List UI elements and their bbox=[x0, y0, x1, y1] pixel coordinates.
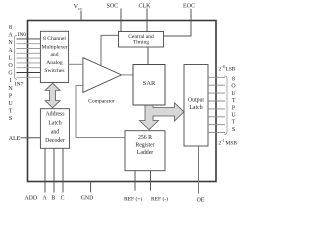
output wire 2 bbox=[208, 84, 225, 86]
svg-text:P: P bbox=[232, 105, 235, 111]
double-headed gray arrow mux<->address latch bbox=[45, 83, 60, 108]
Vcc pin wire bbox=[80, 11, 82, 21]
block: Central and Timing bbox=[119, 32, 164, 48]
output wire 3 bbox=[208, 92, 225, 94]
svg-text:IN0: IN0 bbox=[18, 32, 27, 38]
svg-text:ALE: ALE bbox=[9, 136, 21, 142]
svg-text:T: T bbox=[232, 98, 236, 104]
EOC pin wire bbox=[164, 9, 192, 36]
svg-text:ADD: ADD bbox=[25, 196, 38, 202]
REF(+) pin wire bbox=[134, 171, 136, 191]
svg-text:and: and bbox=[50, 52, 58, 58]
svg-text:OE: OE bbox=[197, 198, 205, 204]
output wire 5 bbox=[208, 108, 225, 110]
svg-text:LSB: LSB bbox=[225, 67, 235, 73]
svg-text:S: S bbox=[9, 116, 12, 122]
svg-text:Switches: Switches bbox=[44, 68, 64, 74]
svg-text:-8: -8 bbox=[221, 64, 224, 69]
svg-text:MSB: MSB bbox=[225, 141, 237, 147]
output wire 6 bbox=[208, 116, 225, 118]
svg-text:Address: Address bbox=[46, 112, 66, 118]
svg-text:EOC: EOC bbox=[183, 4, 195, 10]
input wire 6 bbox=[17, 62, 41, 64]
svg-text:REF (+): REF (+) bbox=[124, 196, 142, 203]
block: 256 R Register Ladder bbox=[125, 131, 165, 171]
input wire 2 bbox=[17, 43, 41, 45]
input group bracket bbox=[15, 35, 18, 79]
svg-text:T: T bbox=[232, 120, 236, 126]
svg-text:Latch: Latch bbox=[48, 121, 61, 127]
svg-text:8: 8 bbox=[9, 25, 12, 31]
svg-text:SOC: SOC bbox=[107, 4, 119, 10]
ALE wire bbox=[21, 137, 41, 139]
OE pin wire bbox=[198, 146, 200, 194]
svg-text:O: O bbox=[231, 84, 235, 90]
svg-text:N: N bbox=[8, 40, 13, 46]
input wire 8 (IN7, dark) bbox=[17, 72, 41, 74]
wire mux to comparator (upper input) bbox=[69, 63, 83, 65]
svg-text:G: G bbox=[8, 71, 13, 77]
svg-text:SAR: SAR bbox=[143, 80, 156, 87]
wire control&timing to SAR bbox=[147, 47, 149, 65]
block: Address Latch and Decoder bbox=[40, 109, 69, 149]
block: Output Latch bbox=[184, 65, 208, 147]
input wire 4 bbox=[17, 52, 41, 54]
svg-text:L: L bbox=[9, 55, 13, 61]
wire comparator output to SAR bbox=[122, 74, 134, 76]
svg-text:A: A bbox=[8, 33, 13, 39]
svg-text:U: U bbox=[8, 101, 13, 107]
CLK pin wire bbox=[146, 9, 148, 32]
svg-text:T: T bbox=[9, 109, 13, 115]
svg-text:B: B bbox=[51, 196, 55, 202]
SOC pin wire bbox=[120, 9, 122, 32]
svg-text:Register: Register bbox=[135, 143, 154, 149]
output wire 1 bbox=[208, 76, 225, 78]
svg-text:CLK: CLK bbox=[139, 4, 152, 10]
wire ladder to comparator (lower input) bbox=[76, 86, 125, 138]
input wire 7 bbox=[17, 67, 41, 69]
svg-text:256 R: 256 R bbox=[138, 135, 152, 141]
svg-text:8: 8 bbox=[232, 77, 235, 83]
svg-text:Decoder: Decoder bbox=[45, 138, 65, 144]
input wire 1 (IN0) bbox=[17, 38, 41, 40]
input wire 5 bbox=[17, 57, 41, 59]
svg-text:-1: -1 bbox=[221, 138, 224, 143]
ADD B wire bbox=[53, 148, 55, 192]
svg-text:REF (-): REF (-) bbox=[151, 196, 168, 203]
output wire 8 bbox=[208, 132, 225, 134]
block: SAR bbox=[133, 65, 165, 106]
input wire 3 bbox=[17, 48, 41, 50]
svg-text:Analog: Analog bbox=[46, 60, 63, 66]
svg-text:Ladder: Ladder bbox=[137, 150, 153, 156]
block: 8 Channel Multiplexer and Analog Switches bbox=[40, 31, 68, 82]
REF(-) pin wire bbox=[150, 171, 152, 191]
svg-text:C: C bbox=[61, 196, 65, 202]
input wire 9 bbox=[17, 76, 41, 78]
output wire 7 bbox=[208, 124, 225, 126]
svg-text:I: I bbox=[10, 78, 12, 84]
svg-text:Timing: Timing bbox=[133, 40, 149, 46]
ADD C wire bbox=[62, 148, 64, 192]
svg-text:GND: GND bbox=[81, 196, 94, 202]
GND pin wire bbox=[90, 182, 92, 193]
svg-text:A: A bbox=[8, 48, 13, 54]
svg-text:Multiplexer: Multiplexer bbox=[42, 44, 68, 50]
svg-text:Comparator: Comparator bbox=[88, 99, 115, 105]
svg-text:and: and bbox=[51, 129, 59, 135]
svg-text:cc: cc bbox=[78, 6, 82, 11]
svg-text:N: N bbox=[8, 86, 13, 92]
svg-text:IN7: IN7 bbox=[15, 81, 24, 87]
thick gray branching arrow: SAR to Output Latch and to ladder bbox=[140, 103, 185, 130]
outer chip boundary box bbox=[28, 21, 217, 182]
svg-text:O: O bbox=[8, 63, 13, 69]
output wire 4 bbox=[208, 100, 225, 102]
svg-text:Latch: Latch bbox=[189, 105, 202, 111]
comparator triangle bbox=[83, 58, 122, 93]
svg-text:Output: Output bbox=[188, 98, 204, 104]
wire control&timing to comparator bbox=[101, 35, 119, 65]
output group bracket bbox=[225, 76, 228, 134]
ADD A wire bbox=[44, 148, 46, 192]
svg-text:8 Channel: 8 Channel bbox=[43, 36, 66, 42]
svg-text:S: S bbox=[232, 127, 235, 133]
